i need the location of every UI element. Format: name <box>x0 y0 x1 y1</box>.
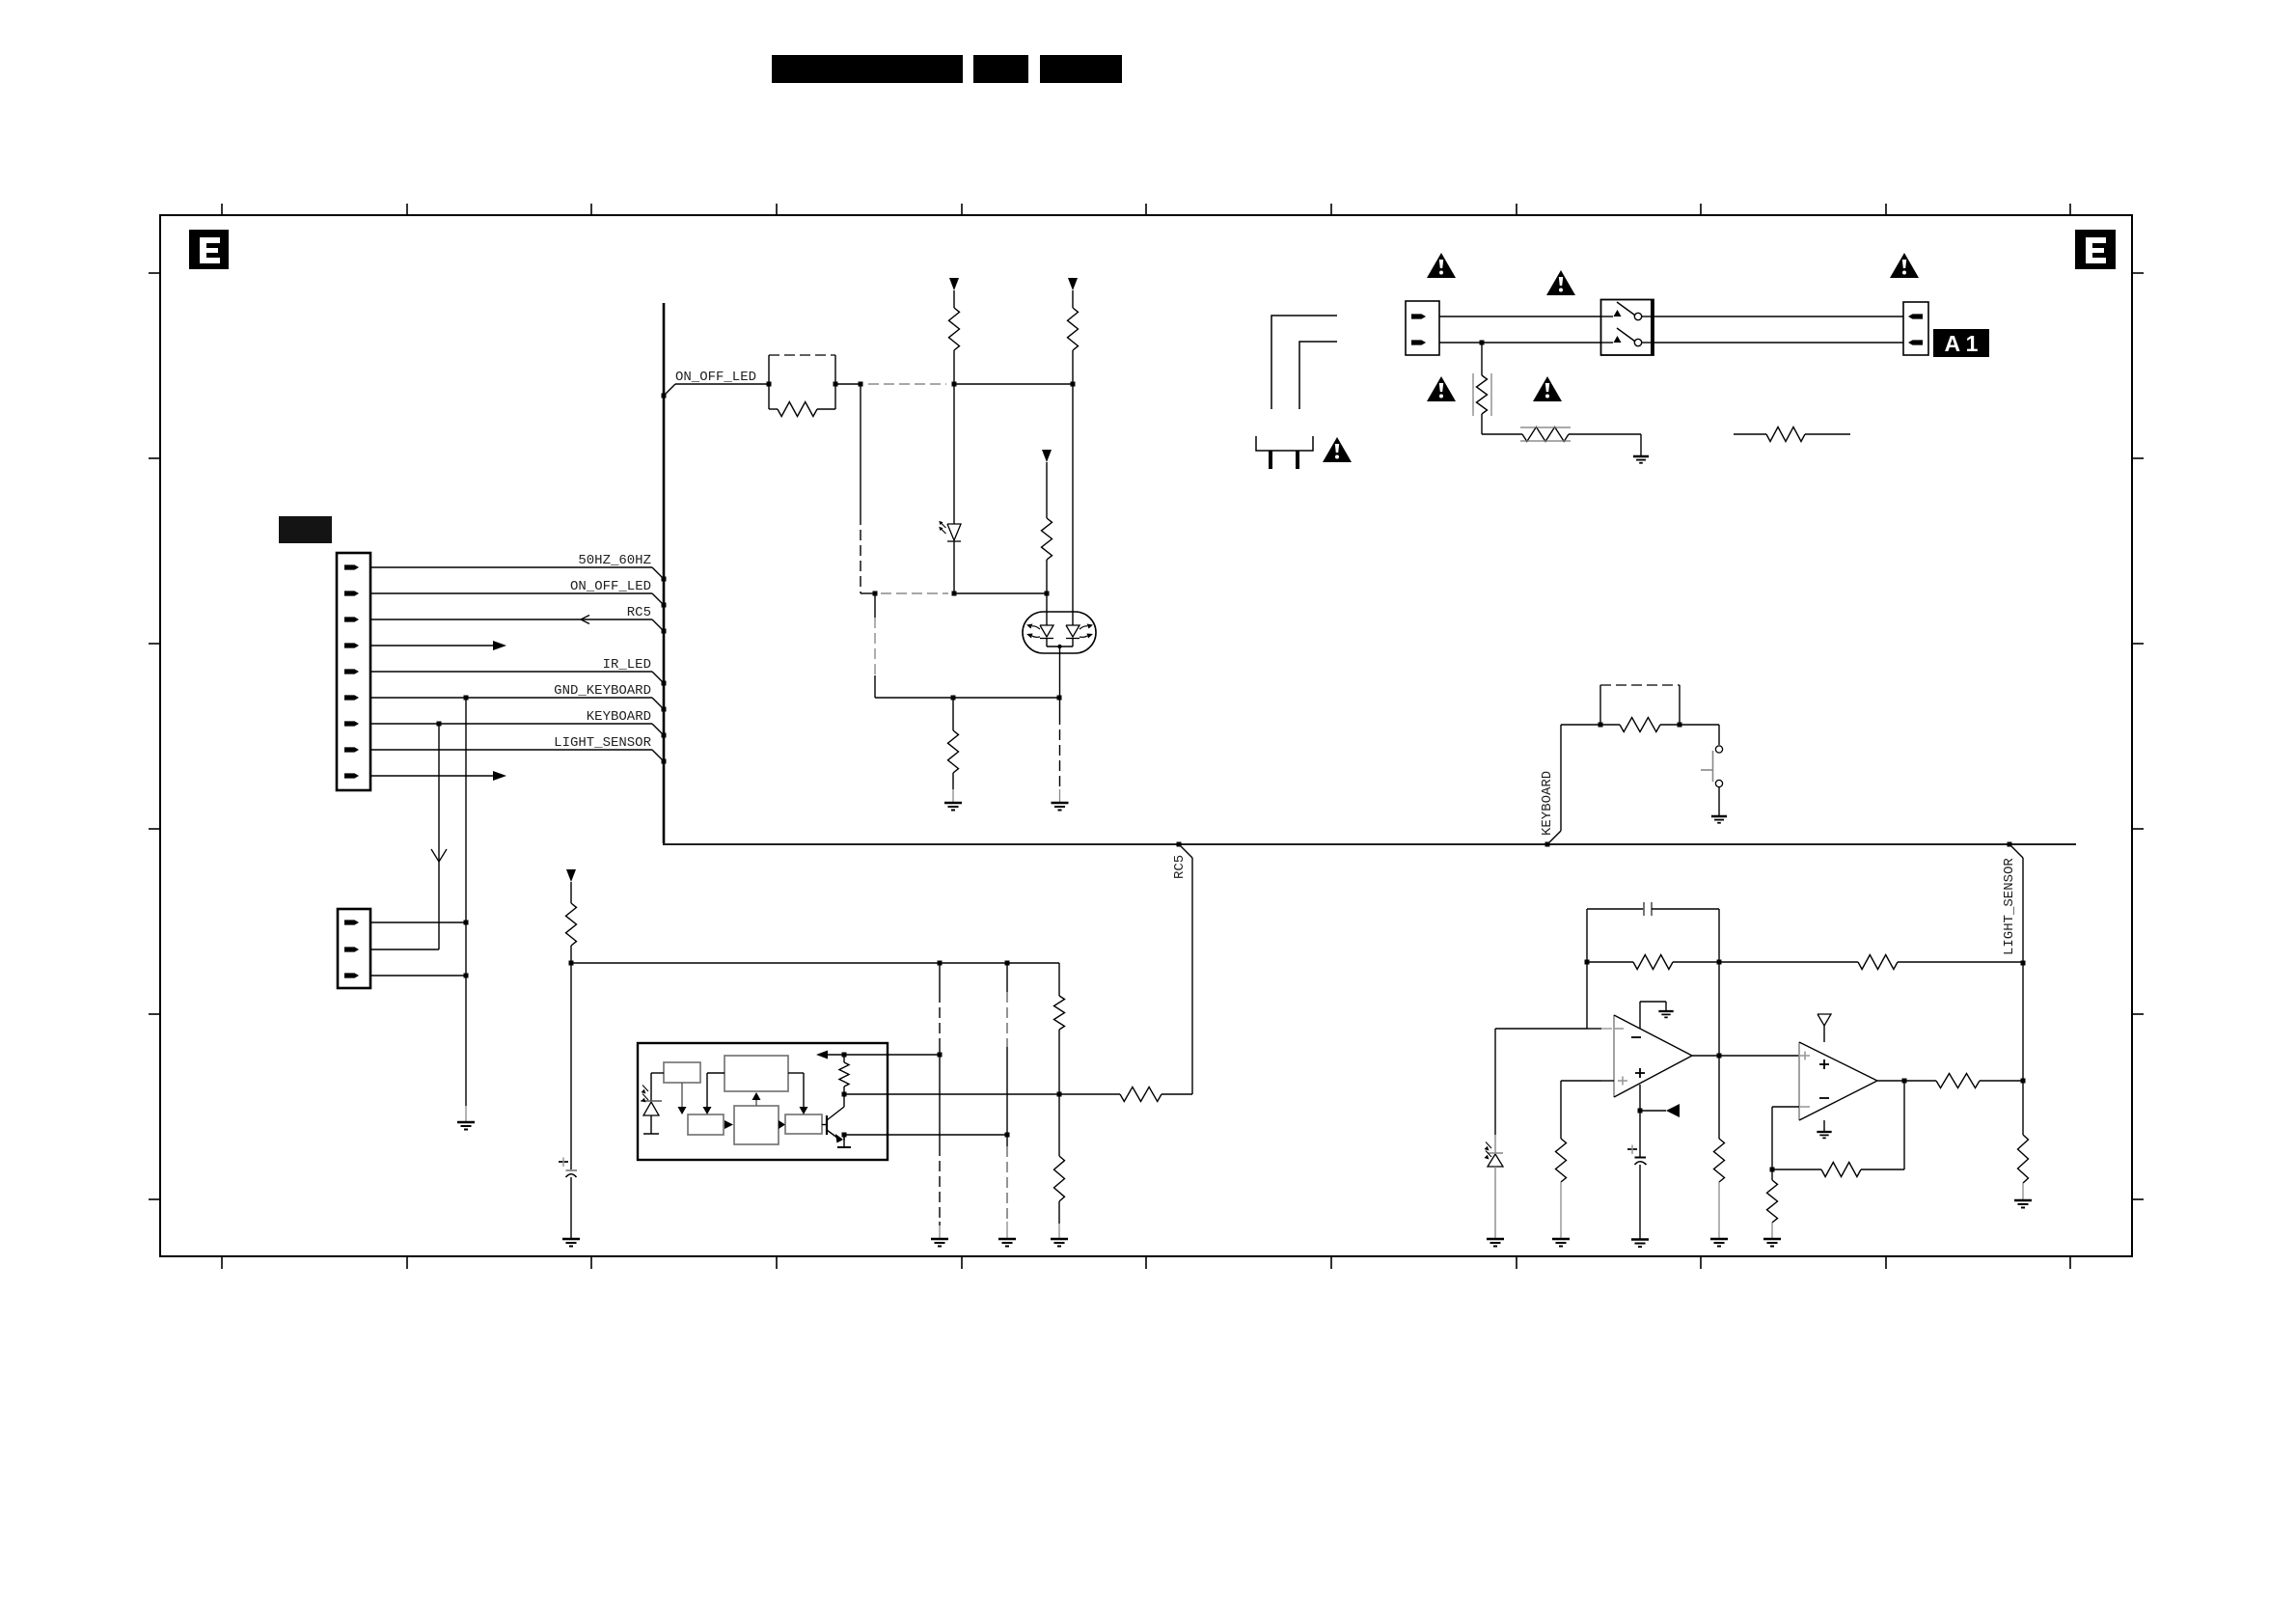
capacitor C2 <box>1586 909 1588 962</box>
bus wire (vertical and horizontal) <box>663 303 666 843</box>
wire op U2 + input <box>1601 1080 1614 1082</box>
resistor R18 <box>1718 962 1720 1056</box>
wire IR_LED <box>370 671 652 673</box>
wire supply rail y=998 <box>571 962 1059 964</box>
block B inside U1 <box>724 1056 788 1091</box>
ground (R21) <box>1763 1238 1781 1241</box>
wire KEYBOARD riser <box>1545 842 1550 847</box>
wire J2 pin1 <box>370 922 466 923</box>
ground (mains) <box>1633 455 1649 457</box>
ground (D2) <box>1059 789 1061 803</box>
wire J2 pin2 <box>370 949 439 950</box>
power arrow V+ for R3 <box>1068 278 1078 290</box>
resistor R11 <box>570 882 572 903</box>
wire LIGHT_SENSOR column <box>2022 963 2024 1081</box>
connector X2 <box>1903 302 1928 355</box>
resistor R6 fusible <box>1481 343 1483 375</box>
wire R1 to LED column <box>835 383 861 385</box>
zone label E left <box>189 230 229 269</box>
svg-text:KEYBOARD: KEYBOARD <box>1540 771 1555 836</box>
svg-text:KEYBOARD: KEYBOARD <box>587 709 651 725</box>
pushbutton switch S2 <box>1715 746 1722 753</box>
wire U2 bias with test arrow <box>1639 1085 1641 1111</box>
wire with arrow (J1 pin 4) <box>370 645 493 646</box>
capacitor C3 electrolytic <box>1639 1111 1641 1157</box>
warning triangle 1 <box>1427 253 1456 278</box>
svg-text:RC5: RC5 <box>627 605 651 620</box>
resistor R10 <box>1120 1087 1162 1102</box>
ground (U1 pin 1) <box>939 1225 941 1239</box>
ground (R17) <box>1552 1238 1570 1241</box>
IR receiver module U1 <box>638 1043 888 1160</box>
photodiode D3 <box>650 1073 652 1101</box>
resistor R12 internal <box>839 1062 849 1087</box>
wire U1 pin column 2 (dashed) <box>1006 963 1008 992</box>
resistor R17 <box>1556 1139 1567 1182</box>
dual IR LED D2 <box>1023 612 1096 653</box>
wire block C to block D arrow <box>724 1120 733 1129</box>
wire bracket inner <box>1299 342 1337 409</box>
ground (R18) <box>1710 1238 1728 1241</box>
wire with arrow (J1 pin 9) <box>370 775 493 777</box>
ground (C3) <box>1631 1238 1649 1241</box>
wire dashed D2 to ground <box>1059 698 1061 714</box>
ground (keyboard return) <box>465 1106 467 1122</box>
connector J1 <box>337 553 370 790</box>
wire block B to block E with arrow <box>788 1072 804 1074</box>
wire mains bottom <box>1439 342 1601 344</box>
warning triangle 3 <box>1890 253 1919 278</box>
wire block A to block C with arrow <box>681 1083 683 1108</box>
wire bracket outer <box>1271 316 1337 409</box>
wire y=1134 row <box>844 1093 1059 1095</box>
svg-text:RC5: RC5 <box>1172 855 1188 879</box>
wire to mains ground <box>1640 434 1642 456</box>
resistor R3 <box>1072 290 1074 308</box>
wire KEYBOARD (connector row) <box>370 723 652 725</box>
wire R15 row to R16 <box>1719 961 1858 963</box>
op-amp U3 <box>1798 1042 1800 1120</box>
wire U2 out to U3 + <box>1719 1055 1799 1057</box>
wire op-amp U2 inverting input <box>1586 962 1588 1029</box>
resistor R13 <box>1054 996 1065 1030</box>
power arrow V+ for R4 <box>1042 450 1052 462</box>
wire R20 to U3 inverting input <box>1771 1107 1773 1169</box>
wire U1 pin column 1 (dashed) <box>939 963 941 992</box>
wire KEYBOARD drop to J2 with arrow <box>438 724 440 949</box>
wire block B to block C with arrow <box>707 1072 724 1074</box>
wire GND_KEYBOARD <box>370 697 652 699</box>
connector J2 <box>338 909 370 988</box>
wire GND_KEYBOARD drop to J2 <box>465 698 467 922</box>
ground (U2 top) <box>1658 1010 1673 1012</box>
ground (R14) <box>1058 1224 1060 1239</box>
redacted reference label <box>279 516 332 543</box>
transistor Q1 <box>822 1124 827 1126</box>
resistor R4 <box>1046 462 1048 518</box>
ground (S2) <box>1711 815 1727 817</box>
svg-text:ON_OFF_LED: ON_OFF_LED <box>675 370 756 385</box>
wire S2 to ground <box>1718 787 1720 817</box>
block D inside U1 <box>734 1106 779 1144</box>
op-amp U2 <box>1613 1015 1615 1097</box>
switch S1 <box>1601 300 1654 356</box>
svg-text:LIGHT_SENSOR: LIGHT_SENSOR <box>2002 858 2017 955</box>
ground terminal inside U1 <box>843 1135 845 1147</box>
warning triangle 6 <box>1323 437 1352 462</box>
wire RC5 (connector row) <box>370 619 652 620</box>
wire ON_OFF_LED (connector row) <box>370 592 652 594</box>
wire J2 pin3 <box>370 975 466 977</box>
resistor R16 <box>1858 955 1898 970</box>
wire block D to block E arrow <box>779 1120 785 1129</box>
wire ON_OFF_LED top <box>664 384 675 396</box>
zone label A1 <box>1933 329 1989 357</box>
warning triangle 5 <box>1533 376 1562 401</box>
wire mains top <box>1439 316 1601 317</box>
resistor R5 <box>952 698 954 730</box>
resistor R2 <box>953 290 955 308</box>
svg-text:LIGHT_SENSOR: LIGHT_SENSOR <box>554 735 651 751</box>
power arrow V+ for R2 <box>949 278 959 290</box>
resistor R8 <box>1734 433 1766 435</box>
svg-text:50HZ_60HZ: 50HZ_60HZ <box>578 553 651 568</box>
ground (U3) <box>1817 1131 1831 1133</box>
capacitor C1 electrolytic <box>570 963 572 1170</box>
svg-text:GND_KEYBOARD: GND_KEYBOARD <box>554 683 651 699</box>
wire Q1 collector to R12 <box>843 1094 845 1107</box>
ground (R5) <box>952 789 954 803</box>
ground (U1 pin 2) <box>1006 1222 1008 1239</box>
wire D3 to block A <box>651 1072 664 1074</box>
wire U3 output <box>1877 1080 1904 1082</box>
mains plug P1 <box>1256 436 1313 451</box>
wire 50HZ_60HZ <box>370 566 652 568</box>
wire LIGHT_SENSOR (connector row) <box>370 749 652 751</box>
wire LIGHT_SENSOR drop <box>2008 842 2012 847</box>
block E inside U1 <box>785 1114 822 1134</box>
ground (R22) <box>2022 1189 2024 1200</box>
warning triangle 4 <box>1427 376 1456 401</box>
wire block D to block B with arrow <box>755 1099 757 1106</box>
resistor R19 <box>1904 1080 1936 1082</box>
wire photodiode branch <box>1495 1028 1587 1030</box>
resistor R9 with jumper (dashed alternative) <box>1599 723 1603 728</box>
wire U2 output <box>1692 1055 1719 1057</box>
svg-text:IR_LED: IR_LED <box>603 657 651 673</box>
resistor R7 fusible <box>1482 433 1522 435</box>
connector X1 <box>1406 301 1439 355</box>
resistor R22 <box>2022 1081 2024 1135</box>
wire AGC with arrow <box>828 1054 940 1056</box>
LED D1 <box>953 384 955 524</box>
resistor R14 <box>1058 1094 1060 1156</box>
resistor R15 feedback <box>1585 960 1590 965</box>
resistor R21 <box>1771 1169 1773 1180</box>
wire rail drop to R13 <box>1058 963 1060 996</box>
resistor R20 feedback <box>1821 1163 1861 1177</box>
block A inside U1 <box>664 1062 700 1083</box>
svg-text:A 1: A 1 <box>1945 331 1979 356</box>
resistor R1 with jumper (dashed alternative) <box>769 354 835 356</box>
power arrow (U3 supply) <box>1818 1014 1831 1026</box>
wire op U2 top ground <box>1639 1002 1641 1029</box>
block C inside U1 <box>688 1114 724 1135</box>
wire feedback U3 <box>1903 1081 1905 1169</box>
ground (C1) <box>562 1238 580 1241</box>
wire RC5 drop <box>1177 842 1182 847</box>
wire drop x=907 and rail y=723 <box>874 593 876 618</box>
wire drop x=892 and dashed row y=615 <box>860 384 861 514</box>
power arrow V+ for R11 <box>566 869 576 882</box>
svg-text:ON_OFF_LED: ON_OFF_LED <box>570 579 651 594</box>
zone label E right <box>2075 230 2116 269</box>
wire R9 to switch <box>1680 724 1719 726</box>
warning triangle 2 <box>1546 270 1575 295</box>
wire Q1 emitter row <box>843 1135 845 1141</box>
wire U3 bottom to ground <box>1823 1120 1825 1131</box>
ground (D4) <box>1487 1238 1504 1241</box>
photodiode D4 <box>1494 1135 1496 1153</box>
